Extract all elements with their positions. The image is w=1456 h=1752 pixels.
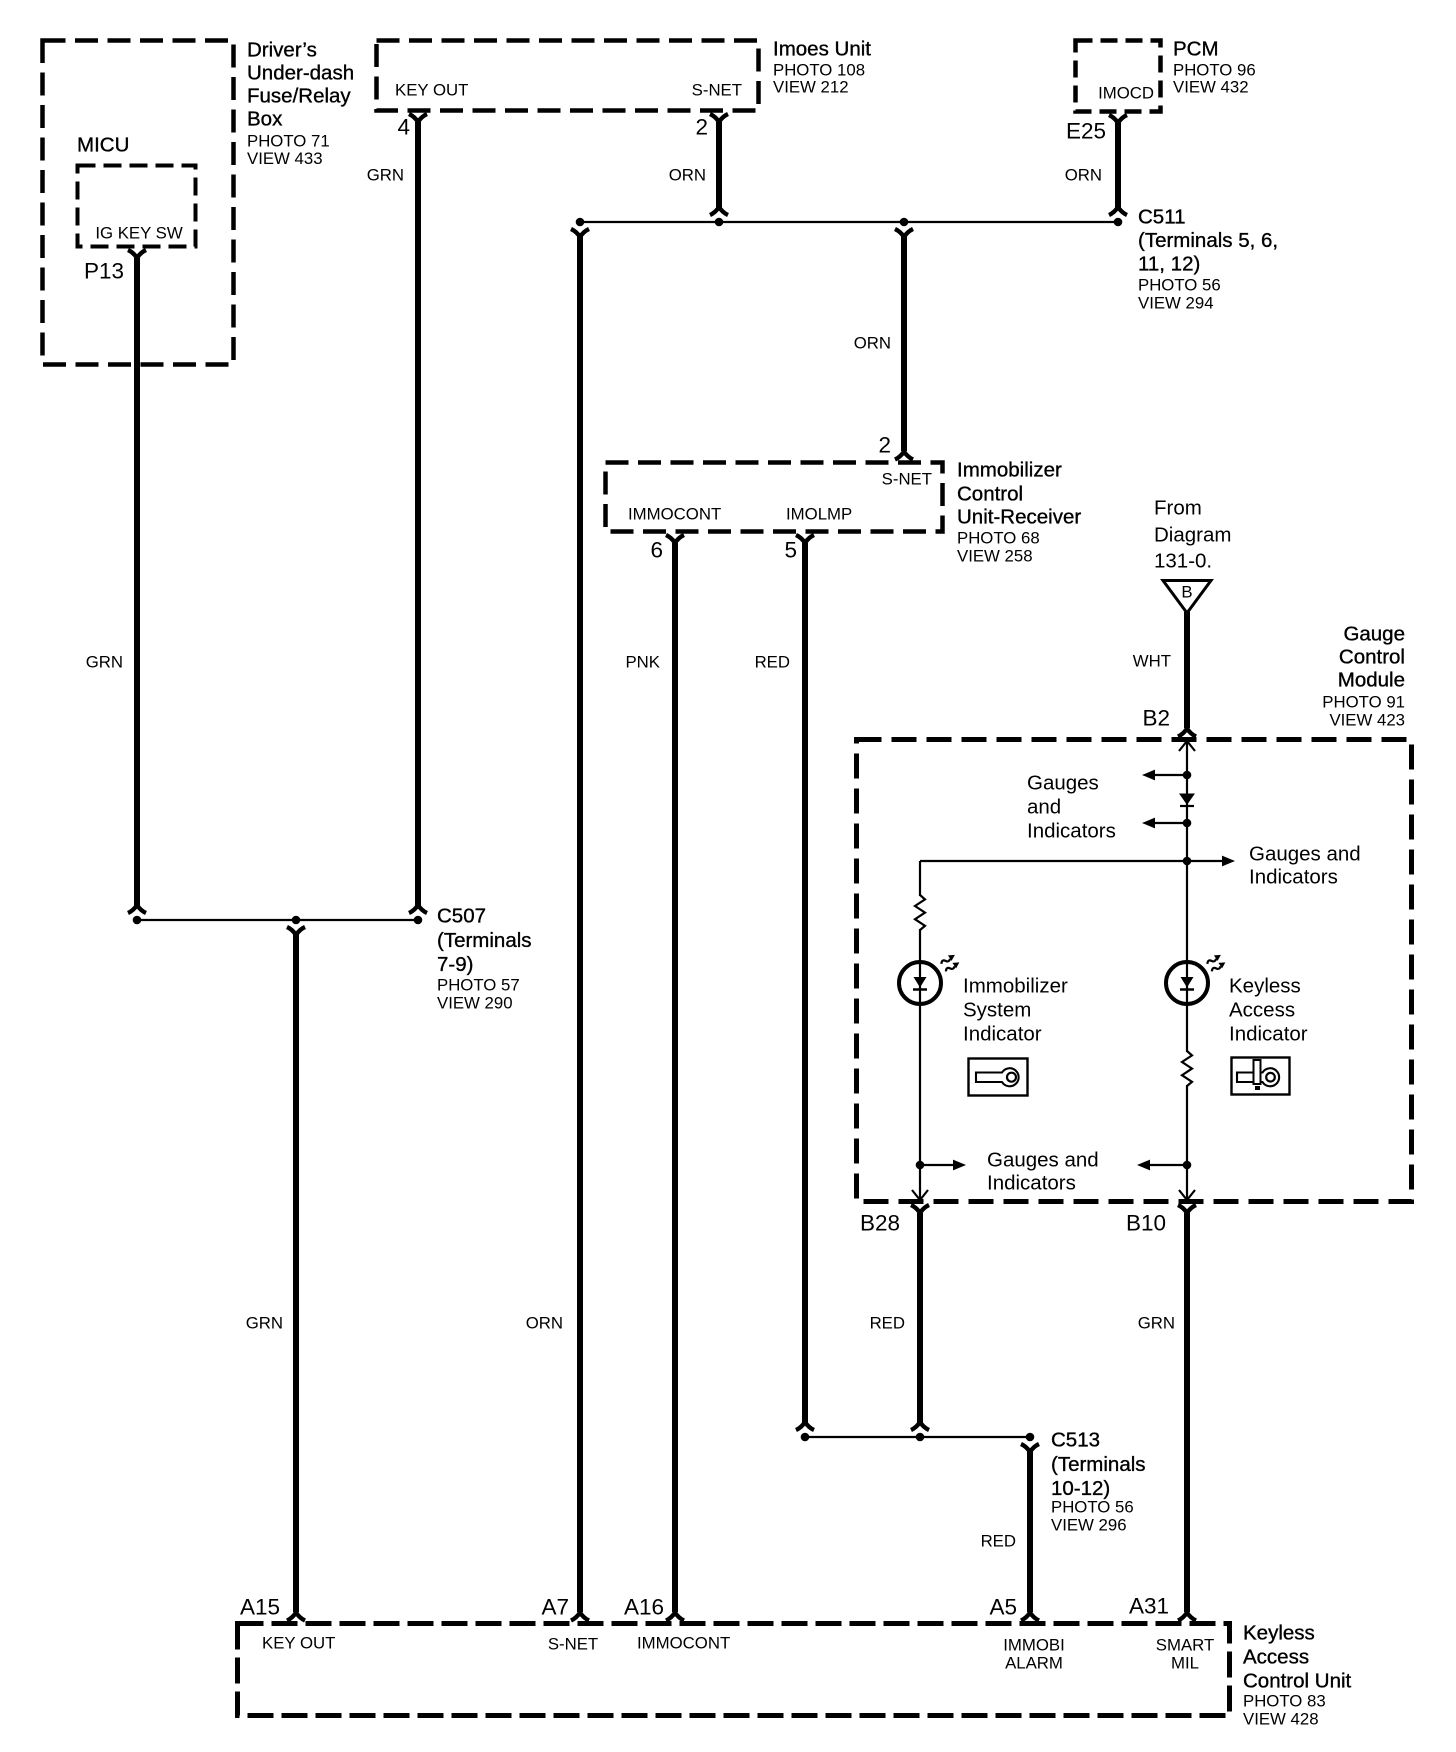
svg-text:P13: P13 (84, 259, 124, 284)
wire ORN bus to A7 (577, 236, 583, 1612)
svg-text:E25: E25 (1066, 119, 1106, 144)
svg-text:Imoes Unit: Imoes Unit (773, 38, 871, 61)
node C511 left (576, 218, 585, 227)
connector at A16 (666, 1613, 684, 1621)
Gauge Control Module box (857, 740, 1412, 1202)
left lamp branch line (919, 861, 921, 896)
svg-text:ORN: ORN (669, 166, 706, 185)
connector at Imoes pin 4 (409, 114, 427, 122)
Driver's Under-dash Fuse/Relay Box label (247, 39, 354, 169)
svg-text:SMART: SMART (1156, 1636, 1214, 1655)
connector at PCM E25 (1109, 115, 1127, 123)
MICU box (43, 41, 234, 365)
svg-text:Driver’s: Driver’s (247, 39, 317, 62)
wire ORN E25 to S-NET bus (1115, 123, 1121, 208)
svg-text:VIEW 294: VIEW 294 (1138, 294, 1214, 313)
svg-text:B: B (1181, 583, 1192, 602)
svg-text:IMOLMP: IMOLMP (786, 505, 852, 524)
svg-text:Diagram: Diagram (1154, 524, 1231, 547)
branch wire to left lamp (920, 860, 1187, 862)
svg-text:C513: C513 (1051, 1429, 1100, 1452)
arrow to gauges and indicators 2 (1142, 818, 1187, 829)
wire ORN bus to immobilizer receiver pin 2 (901, 236, 907, 451)
wire GRN P13 to C507 (134, 258, 140, 906)
node C511 Imoes (715, 218, 724, 227)
node C511 right (1114, 218, 1123, 227)
svg-text:GRN: GRN (367, 166, 404, 185)
connector below C513 bus right (1021, 1444, 1039, 1452)
LED immobilizer system indicator (899, 953, 961, 1004)
svg-text:IMMOCONT: IMMOCONT (637, 1634, 730, 1653)
svg-text:5: 5 (784, 538, 797, 563)
wire WHT triangle B to B2 (1184, 612, 1190, 728)
Gauge Control Module label (1322, 623, 1405, 730)
node C507 middle (292, 916, 301, 925)
node C513 left (801, 1433, 810, 1442)
connector at A5 (1021, 1613, 1039, 1621)
connector above S-NET bus (710, 207, 728, 215)
svg-text:PCM: PCM (1173, 38, 1219, 61)
arrow down at B10 exit (1179, 1190, 1195, 1200)
Imoes Unit box (377, 41, 759, 111)
svg-text:131-0.: 131-0. (1154, 550, 1212, 573)
off-page connector triangle B (1163, 581, 1211, 614)
node gauge top 1 (1183, 771, 1192, 780)
svg-text:GRN: GRN (86, 653, 123, 672)
svg-text:S-NET: S-NET (692, 81, 742, 100)
svg-text:Indicators: Indicators (1249, 866, 1338, 889)
arrow to gauges and indicators 1 (1142, 770, 1187, 781)
wire GRN Imoes pin 4 to C507 (415, 122, 421, 906)
svg-text:Indicator: Indicator (963, 1023, 1042, 1046)
svg-text:Access: Access (1229, 999, 1295, 1022)
svg-text:B2: B2 (1142, 706, 1170, 731)
svg-text:A7: A7 (541, 1595, 569, 1620)
svg-text:Module: Module (1338, 669, 1405, 692)
C513 label (1051, 1429, 1146, 1535)
svg-text:S-NET: S-NET (882, 470, 932, 489)
wire GRN B10 to A31 (1184, 1213, 1190, 1612)
svg-text:(Terminals: (Terminals (1051, 1453, 1146, 1476)
Gauges and Indicators label top (1027, 772, 1116, 843)
svg-text:Indicator: Indicator (1229, 1023, 1308, 1046)
C513 bus wire (805, 1436, 1030, 1438)
svg-text:Indicators: Indicators (987, 1172, 1076, 1195)
svg-text:7-9): 7-9) (437, 953, 473, 976)
Gauges and Indicators label right (1249, 843, 1361, 889)
Keyless Access Control Unit label (1243, 1622, 1352, 1729)
svg-text:C507: C507 (437, 905, 486, 928)
wire GRN C507 to A15 (293, 934, 299, 1612)
gauge module main line (1186, 742, 1188, 1052)
Immobilizer System Indicator label (963, 975, 1068, 1046)
IG KEY SW box (78, 166, 196, 247)
node C511 middle (900, 218, 909, 227)
Immobilizer Control Unit-Receiver box (606, 463, 943, 532)
svg-text:PHOTO 71: PHOTO 71 (247, 132, 330, 151)
connector below bus left end (571, 229, 589, 237)
S-NET bus wire C511 (580, 221, 1118, 223)
svg-text:RED: RED (981, 1532, 1016, 1551)
svg-text:ORN: ORN (1065, 166, 1102, 185)
svg-text:VIEW 212: VIEW 212 (773, 78, 849, 97)
connector at Imoes pin 2 (710, 114, 728, 122)
svg-text:MICU: MICU (77, 134, 129, 157)
svg-text:Fuse/Relay: Fuse/Relay (247, 85, 351, 108)
svg-text:Keyless: Keyless (1243, 1622, 1315, 1645)
svg-text:A5: A5 (989, 1595, 1017, 1620)
svg-text:S-NET: S-NET (548, 1635, 598, 1654)
svg-text:A16: A16 (624, 1595, 664, 1620)
svg-text:IMOCD: IMOCD (1098, 84, 1154, 103)
diode D (1180, 794, 1194, 806)
svg-text:MIL: MIL (1171, 1654, 1199, 1673)
arrow right to gauges and indicators bottom (920, 1160, 966, 1171)
svg-text:IMMOBI: IMMOBI (1003, 1636, 1065, 1655)
svg-text:Immobilizer: Immobilizer (957, 459, 1062, 482)
svg-text:A31: A31 (1129, 1594, 1169, 1619)
IMMOBI ALARM label (1003, 1636, 1065, 1673)
node C513 right (1026, 1433, 1035, 1442)
connector at A7 (571, 1613, 589, 1621)
svg-text:PHOTO 56: PHOTO 56 (1138, 276, 1221, 295)
node branch (1183, 857, 1192, 866)
svg-text:PHOTO 57: PHOTO 57 (437, 976, 520, 995)
connector at B2 (1178, 729, 1196, 737)
node bottom right (1183, 1161, 1192, 1170)
svg-text:B10: B10 (1126, 1211, 1166, 1236)
svg-text:VIEW 432: VIEW 432 (1173, 78, 1249, 97)
PCM box (1076, 41, 1161, 112)
svg-text:VIEW 290: VIEW 290 (437, 994, 513, 1013)
svg-text:RED: RED (870, 1314, 905, 1333)
SMART MIL label (1156, 1636, 1214, 1673)
connector at A31 (1178, 1613, 1196, 1621)
svg-text:Control: Control (1339, 646, 1405, 669)
svg-text:(Terminals: (Terminals (437, 929, 532, 952)
C507 bus wire (137, 919, 418, 921)
svg-text:Gauges and: Gauges and (987, 1149, 1099, 1172)
connector at C507 left (128, 905, 146, 913)
svg-text:VIEW 433: VIEW 433 (247, 149, 323, 168)
wire RED pin 5 to C513 bus (802, 543, 808, 1423)
arrow down at B28 exit (912, 1190, 928, 1200)
svg-text:VIEW 423: VIEW 423 (1329, 711, 1405, 730)
arrow left at bottom right (1137, 1160, 1187, 1171)
keyless key icon (1232, 1058, 1290, 1095)
svg-text:VIEW 258: VIEW 258 (957, 547, 1033, 566)
svg-text:ORN: ORN (854, 334, 891, 353)
svg-text:KEY OUT: KEY OUT (262, 1634, 335, 1653)
svg-text:From: From (1154, 497, 1202, 520)
connector at A15 (287, 1613, 305, 1621)
node C507 left (133, 916, 142, 925)
svg-text:IMMOCONT: IMMOCONT (628, 505, 721, 524)
wire RED C513 to A5 (1027, 1451, 1033, 1612)
svg-text:RED: RED (755, 653, 790, 672)
svg-text:Access: Access (1243, 1646, 1309, 1669)
connector at B10 (1178, 1205, 1196, 1213)
svg-text:4: 4 (397, 115, 410, 140)
arrow up at B2 entry (1179, 741, 1195, 751)
svg-text:System: System (963, 999, 1031, 1022)
svg-text:Under-dash: Under-dash (247, 62, 354, 85)
svg-text:C511: C511 (1138, 206, 1186, 229)
svg-text:A15: A15 (240, 1595, 280, 1620)
connector at receiver pin 2 (895, 452, 913, 460)
svg-text:VIEW 428: VIEW 428 (1243, 1710, 1319, 1729)
svg-text:2: 2 (695, 115, 708, 140)
svg-text:Gauges and: Gauges and (1249, 843, 1361, 866)
connector at receiver pin 5 (796, 535, 814, 543)
PCM label (1173, 38, 1256, 97)
connector at C507 right (409, 905, 427, 913)
svg-text:B28: B28 (860, 1211, 900, 1236)
svg-text:6: 6 (650, 538, 663, 563)
svg-text:ORN: ORN (526, 1314, 563, 1333)
node C513 middle (916, 1433, 925, 1442)
svg-text:Gauges: Gauges (1027, 772, 1099, 795)
connector at P13 (128, 250, 146, 258)
svg-text:VIEW 296: VIEW 296 (1051, 1516, 1127, 1535)
svg-text:PHOTO 68: PHOTO 68 (957, 529, 1040, 548)
Keyless Access Control Unit box (238, 1624, 1230, 1716)
connector below bus middle (895, 229, 913, 237)
connector at B28 (911, 1205, 929, 1213)
node bottom left (916, 1161, 925, 1170)
svg-text:PHOTO 56: PHOTO 56 (1051, 1498, 1134, 1517)
svg-text:KEY OUT: KEY OUT (395, 81, 468, 100)
Gauges and Indicators label bottom (987, 1149, 1099, 1195)
svg-text:(Terminals 5, 6,: (Terminals 5, 6, (1138, 229, 1278, 252)
svg-text:Immobilizer: Immobilizer (963, 975, 1068, 998)
svg-text:GRN: GRN (1138, 1314, 1175, 1333)
svg-text:Control Unit: Control Unit (1243, 1670, 1352, 1693)
svg-text:PHOTO 83: PHOTO 83 (1243, 1692, 1326, 1711)
node C507 right (414, 916, 423, 925)
wire PNK pin 6 to A16 (672, 543, 678, 1612)
connector at receiver pin 6 (666, 535, 684, 543)
Immobilizer Control Unit-Receiver label (957, 459, 1081, 566)
connector above C513 bus left (796, 1422, 814, 1430)
connector above C513 bus middle (911, 1422, 929, 1430)
node gauge top 2 (1183, 819, 1192, 828)
svg-text:IG KEY SW: IG KEY SW (95, 224, 183, 243)
Imoes Unit label (773, 38, 871, 97)
LED keyless access indicator (1166, 953, 1227, 1004)
svg-text:WHT: WHT (1133, 652, 1171, 671)
Keyless Access Indicator label (1229, 975, 1308, 1046)
svg-text:11, 12): 11, 12) (1138, 253, 1200, 276)
svg-text:PHOTO 91: PHOTO 91 (1322, 693, 1405, 712)
svg-text:Gauge: Gauge (1343, 623, 1405, 646)
svg-text:Control: Control (957, 483, 1023, 506)
svg-text:and: and (1027, 796, 1061, 819)
wire RED B28 to C513 bus (917, 1213, 923, 1423)
svg-text:Keyless: Keyless (1229, 975, 1301, 998)
arrow right to gauges and indicators (1187, 856, 1235, 867)
connector below C507 middle (287, 927, 305, 935)
svg-text:2: 2 (878, 433, 891, 458)
svg-text:Box: Box (247, 108, 283, 131)
immobilizer key icon (969, 1059, 1028, 1096)
connector above bus right end (1109, 207, 1127, 215)
svg-text:Indicators: Indicators (1027, 820, 1116, 843)
C507 label (437, 905, 532, 1013)
resistor left (915, 895, 925, 930)
resistor right (1182, 1051, 1192, 1086)
svg-text:Unit-Receiver: Unit-Receiver (957, 506, 1081, 529)
svg-text:PNK: PNK (625, 653, 660, 672)
wire ORN Imoes pin 2 to S-NET bus (716, 122, 722, 208)
svg-text:GRN: GRN (246, 1314, 283, 1333)
svg-text:ALARM: ALARM (1005, 1654, 1063, 1673)
C511 label (1138, 206, 1278, 313)
From Diagram 131-0. label (1154, 497, 1231, 573)
